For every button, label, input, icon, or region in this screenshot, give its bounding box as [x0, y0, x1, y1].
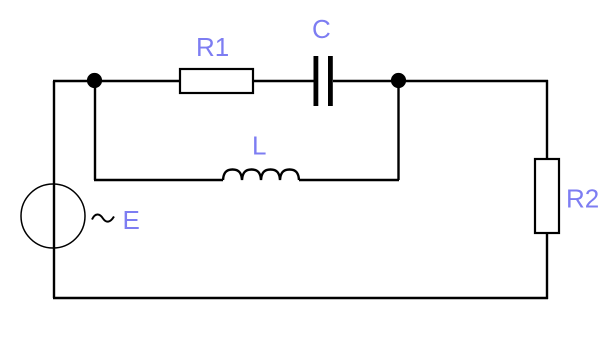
- svg-text:R1: R1: [196, 32, 229, 62]
- wire left vertical: [53, 81, 55, 298]
- svg-text:C: C: [312, 14, 331, 44]
- wire inner loop bottom right: [299, 179, 399, 181]
- wire inner loop left vertical: [94, 81, 96, 180]
- resistor R2: [535, 159, 559, 233]
- wire R1 to capacitor: [254, 80, 314, 82]
- wire top from left corner to R1: [53, 80, 179, 82]
- resistor R1: [180, 69, 253, 93]
- wire capacitor to right corner: [333, 80, 548, 82]
- wire inner loop right vertical: [397, 81, 399, 180]
- capacitor C plate right: [328, 56, 333, 106]
- svg-text:L: L: [252, 131, 266, 161]
- AC tilde symbol: [92, 214, 114, 221]
- wire right vertical lower: [546, 234, 548, 299]
- inductor L: [223, 170, 299, 181]
- wire bottom: [53, 297, 548, 299]
- svg-text:E: E: [123, 205, 140, 235]
- source circle E (AC source): [21, 184, 85, 248]
- svg-text:R2: R2: [566, 184, 599, 214]
- wire right vertical upper: [546, 80, 548, 158]
- capacitor C plate left: [314, 56, 319, 106]
- node junction dot right: [391, 73, 406, 88]
- node junction dot left: [87, 73, 102, 88]
- wire inner loop bottom left: [94, 179, 223, 181]
